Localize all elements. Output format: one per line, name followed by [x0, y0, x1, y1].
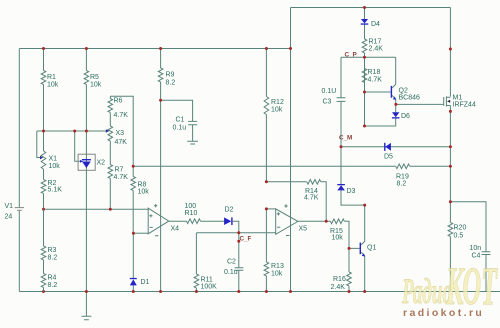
diode D2 [224, 207, 233, 226]
svg-text:5.1K: 5.1K [48, 187, 63, 194]
junction dot x450 y49 [449, 48, 452, 51]
junction dot V1 tap left [42, 208, 45, 211]
junction dot X4 minus [132, 232, 135, 235]
wire X1 wiper drop [37, 131, 40, 158]
resistor R6 [108, 96, 128, 126]
svg-text:10k: 10k [138, 189, 150, 196]
junction dot C_M [340, 145, 343, 148]
resistor R13 [264, 209, 284, 292]
battery V1 [5, 203, 25, 221]
svg-text:D6: D6 [401, 113, 410, 120]
mosfet M1 [444, 95, 476, 109]
svg-text:R4: R4 [48, 275, 57, 282]
diode D3 [337, 184, 355, 195]
junction dot rail-R11 [195, 290, 198, 293]
resistor R11 [194, 233, 217, 292]
resistor R14 [304, 180, 321, 202]
junction dot Q2 emitter gate [394, 103, 397, 106]
wire X2 anode column to ground rail [85, 170, 87, 291]
resistor R19 [396, 164, 410, 188]
junction dot rail-R1 [42, 47, 45, 50]
resistor R1 [41, 49, 59, 132]
svg-text:4.7K: 4.7K [368, 77, 383, 84]
svg-text:8.2: 8.2 [397, 181, 407, 188]
junction dot rail-R9 [159, 47, 162, 50]
junction dot rail-ground [85, 290, 88, 293]
svg-text:0.1U: 0.1U [322, 88, 337, 95]
wire Q2 base [365, 91, 391, 93]
resistor R4 [41, 274, 57, 292]
junction dot nodeA-X2ref [73, 130, 76, 133]
wire left edge V1 minus column [18, 211, 20, 292]
svg-text:M1: M1 [453, 95, 463, 102]
svg-text:IRFZ44: IRFZ44 [453, 102, 476, 109]
svg-text:X1: X1 [49, 156, 58, 163]
svg-text:0.5: 0.5 [454, 233, 464, 240]
svg-text:47K: 47K [115, 139, 128, 146]
wire M1 source column [449, 106, 451, 223]
wire D6 bottom loop [365, 119, 396, 127]
transistor Q2 [391, 57, 420, 104]
resistor R20 [448, 223, 466, 240]
svg-text:R12: R12 [271, 99, 284, 106]
junction dot X5 plus [265, 207, 268, 210]
wire X5 supply column x290 [290, 8, 292, 292]
wire X2 ref branch [75, 131, 80, 161]
junction dot rail-Q1emitter [363, 290, 366, 293]
svg-text:R3: R3 [48, 247, 57, 254]
svg-text:D1: D1 [141, 279, 150, 286]
svg-text:10k: 10k [332, 235, 344, 242]
junction dot V1 tap R7 [109, 208, 112, 211]
diode D4 [361, 8, 380, 40]
svg-text:V1: V1 [5, 203, 14, 210]
junction dot nodeA-R5 [85, 130, 88, 133]
svg-text:radiokot.ru: radiokot.ru [403, 307, 484, 319]
diode D1 [130, 233, 150, 291]
resistor R8 [131, 166, 149, 233]
junction dot nodeA-R1 [42, 130, 45, 133]
junction dot C_P [363, 56, 366, 59]
wire M1 drain column [449, 8, 451, 97]
svg-text:R8: R8 [138, 182, 147, 189]
wire C4 branch [450, 202, 486, 292]
svg-text:100K: 100K [201, 284, 218, 291]
svg-text:R13: R13 [271, 263, 284, 270]
resistor R18 [362, 57, 382, 126]
junction dot M1 source [449, 110, 452, 113]
junction dot X5 out [325, 220, 328, 223]
svg-text:0.1u: 0.1u [224, 269, 238, 276]
junction dot D4 top [363, 6, 366, 9]
wire node C_P horizontal [341, 56, 396, 58]
junction dot rail-R13 [265, 290, 268, 293]
svg-text:0.1u: 0.1u [173, 125, 187, 132]
wire node A horizontal y131 [37, 130, 106, 132]
shunt regulator X2 [78, 154, 105, 170]
svg-text:8.2: 8.2 [48, 282, 58, 289]
wire X5 plus input [266, 208, 275, 210]
svg-text:D3: D3 [347, 188, 356, 195]
svg-text:R1: R1 [47, 74, 56, 81]
diode D6 [392, 112, 410, 120]
resistor R5 [84, 49, 102, 132]
svg-text:D2: D2 [225, 207, 234, 214]
svg-text:4.7K: 4.7K [114, 174, 129, 181]
svg-text:C_F: C_F [240, 236, 252, 243]
svg-text:R10: R10 [185, 210, 198, 217]
wire long rail y166 [133, 165, 396, 167]
svg-text:8.2: 8.2 [166, 80, 176, 87]
potentiometer X1 [40, 131, 60, 180]
junction dot C_F [237, 231, 240, 234]
junction dot rail-D1 [132, 290, 135, 293]
junction dot D6 loop [363, 125, 366, 128]
svg-text:24: 24 [5, 214, 13, 221]
junction dot Q2 base [363, 91, 366, 94]
ground symbol main [82, 292, 92, 320]
junction dot R19 right [449, 165, 452, 168]
watermark logo RadioKOT [401, 256, 497, 316]
junction dot rail-C2 [237, 290, 240, 293]
svg-text:R5: R5 [90, 74, 99, 81]
resistor R16 [331, 248, 352, 291]
wire y166 right of R19 [410, 165, 451, 167]
junction dot rail-R12 [265, 47, 268, 50]
junction dot rail-R5 [85, 47, 88, 50]
capacitor C2 [224, 233, 243, 292]
svg-text:100: 100 [185, 203, 197, 210]
svg-text:C3: C3 [323, 99, 332, 106]
svg-text:BC846: BC846 [399, 95, 421, 102]
svg-text:D4: D4 [371, 21, 380, 28]
svg-text:4.7K: 4.7K [304, 195, 319, 202]
capacitor C3 [322, 57, 346, 147]
wire X4 output [169, 220, 187, 222]
svg-text:R16: R16 [333, 276, 346, 283]
svg-text:Q1: Q1 [367, 245, 376, 252]
wire top rail +24V [19, 48, 290, 50]
junction dot Q1 base [348, 247, 351, 250]
capacitor C1 [161, 100, 198, 141]
diode D5 [384, 143, 393, 161]
junction dot C4 branch [449, 200, 452, 203]
junction dot feedback R12 [265, 180, 268, 183]
wire bottom ground rail [19, 291, 500, 293]
junction dot rail-R4 [42, 290, 45, 293]
wire X2 cathode column [85, 131, 87, 154]
junction dot C_F lower [237, 240, 240, 243]
svg-text:R17: R17 [369, 39, 382, 46]
resistor R7 [108, 141, 128, 209]
svg-text:10k: 10k [90, 82, 102, 89]
svg-text:D5: D5 [384, 154, 393, 161]
junction dot C1 branch [159, 99, 162, 102]
capacitor C4 [470, 245, 491, 260]
resistor R9 [158, 49, 175, 101]
resistor R12 [264, 49, 284, 182]
svg-text:2.4K: 2.4K [369, 46, 384, 53]
svg-text:10k: 10k [49, 163, 61, 170]
junction dot D5 right [449, 145, 452, 148]
svg-text:X4: X4 [171, 226, 180, 233]
wire R10 to D2 [201, 220, 225, 222]
wire R9 to X4 power column [160, 100, 162, 291]
wire C_M to D5 to M1 source [341, 146, 450, 148]
svg-text:C1: C1 [176, 117, 185, 124]
junction dot rail-x290 [289, 47, 292, 50]
svg-text:8.2: 8.2 [48, 255, 58, 262]
resistor R10 [185, 203, 201, 224]
svg-text:X5: X5 [299, 226, 308, 233]
svg-text:2.4K: 2.4K [331, 284, 346, 291]
resistor R3 [41, 209, 57, 273]
svg-text:10k: 10k [271, 107, 283, 114]
wire R15 to Q1 base [344, 221, 359, 248]
wire R20 bottom column [449, 237, 451, 292]
junction dot rail-R16 [348, 290, 351, 293]
wire C_F horizontal [196, 232, 275, 234]
svg-text:R7: R7 [115, 167, 124, 174]
resistor R17 [362, 39, 383, 58]
wire V1 tap to X4 plus input [44, 208, 149, 210]
svg-text:Радио: Радио [401, 271, 452, 311]
svg-text:X3: X3 [116, 130, 125, 137]
svg-text:R18: R18 [368, 69, 381, 76]
resistor R2 [41, 180, 62, 210]
transistor Q1 [360, 205, 377, 291]
svg-text:C_P: C_P [345, 52, 357, 59]
svg-text:R20: R20 [454, 225, 467, 232]
wire Q1 collector column x364 [364, 57, 366, 126]
op-amp X4 [148, 204, 179, 236]
svg-text:R9: R9 [166, 72, 175, 79]
junction dot rail-X4supply [159, 290, 162, 293]
resistor R15 [330, 219, 344, 242]
junction dot D3 Q1 collector [363, 204, 366, 207]
ground C1 [187, 141, 198, 144]
wire Q2 emitter to D6 [395, 104, 397, 112]
wire gate Q2 emitter to M1 [396, 103, 444, 105]
potentiometer X3 [106, 126, 127, 146]
svg-text:4.7K: 4.7K [114, 112, 129, 119]
svg-text:R11: R11 [201, 277, 213, 284]
svg-text:C2: C2 [227, 259, 236, 266]
svg-text:Q2: Q2 [399, 88, 408, 95]
wire D2 to node C_F [233, 221, 239, 233]
wire X5 feedback [266, 182, 326, 222]
wire C_M to D3 column [341, 147, 365, 205]
wire X4 minus input [133, 232, 148, 234]
svg-text:R6: R6 [114, 98, 123, 105]
svg-text:10k: 10k [47, 82, 59, 89]
svg-text:X2: X2 [97, 160, 106, 167]
junction dot rail-X5supply [289, 290, 292, 293]
op-amp X5 [276, 204, 307, 235]
wire left edge V1 plus column [18, 49, 20, 208]
svg-text:10k: 10k [271, 271, 283, 278]
wire top jumper [291, 7, 451, 9]
junction dot R6-R8 [132, 165, 135, 168]
wire X5 output [298, 220, 331, 222]
svg-text:R19: R19 [396, 174, 409, 181]
svg-text:10n: 10n [470, 245, 482, 252]
wire R6 top to R8 box [110, 96, 133, 166]
